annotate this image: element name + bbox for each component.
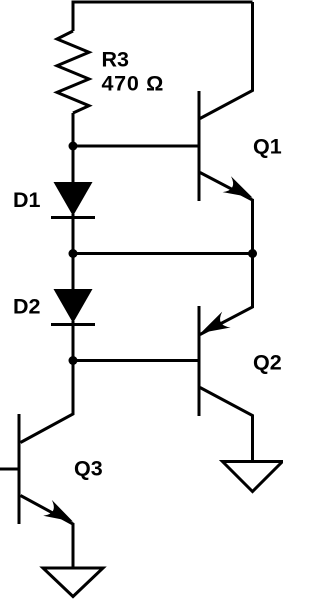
svg-text:Q1: Q1: [253, 134, 282, 158]
svg-text:Q3: Q3: [74, 456, 103, 480]
svg-text:470 Ω: 470 Ω: [102, 71, 165, 95]
svg-text:D2: D2: [13, 295, 41, 319]
svg-text:R3: R3: [102, 48, 130, 72]
svg-text:Q2: Q2: [253, 351, 282, 375]
svg-text:D1: D1: [13, 188, 41, 212]
